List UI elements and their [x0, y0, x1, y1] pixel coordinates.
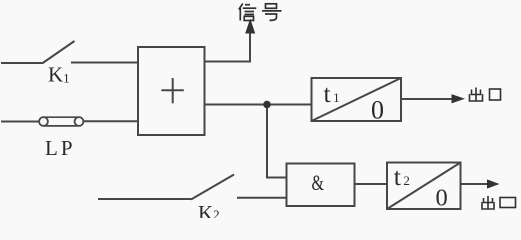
信: [239, 4, 256, 21]
OR gate plus sign: [161, 78, 183, 103]
svg-text:0: 0: [436, 185, 448, 212]
出: [482, 196, 494, 209]
wire AND to T2: [355, 183, 388, 185]
label 出口 (outlet 2) drawn glyphs: [482, 196, 516, 209]
label 信号 (signal) drawn glyphs: [239, 4, 282, 21]
wire OR output to node: [205, 104, 312, 106]
wire T1 output arrow line: [401, 98, 456, 100]
wire K2 to AND gate: [237, 197, 287, 199]
wire node down to AND gate: [267, 105, 287, 178]
svg-text:0: 0: [371, 95, 384, 124]
arrowhead outlet 1 (right): [452, 94, 466, 103]
timer T2 diagonal: [387, 163, 461, 210]
wire K1 to OR gate: [71, 62, 138, 64]
wire K1 left lead: [1, 62, 42, 64]
OR gate U1 "+" box: [138, 47, 205, 135]
口: [500, 198, 516, 208]
switch K1 blade: [42, 41, 75, 64]
wire LP left lead: [1, 121, 40, 123]
svg-text:&: &: [312, 170, 325, 195]
wire LP to OR gate: [83, 120, 138, 122]
wire K2 left lead: [98, 198, 191, 200]
号: [262, 4, 282, 21]
口: [490, 89, 501, 100]
node junction dot: [263, 101, 271, 109]
svg-text:LP: LP: [45, 136, 76, 160]
wire signal output: [205, 31, 251, 62]
arrowhead signal (up): [245, 19, 255, 34]
link LP symbol: [39, 117, 83, 126]
switch K2 blade: [191, 175, 234, 200]
timer T2 box: [387, 163, 461, 210]
wire T2 output arrow line: [461, 183, 493, 185]
出: [470, 88, 483, 102]
AND gate box: [287, 164, 355, 207]
arrowhead outlet 2 (right): [487, 179, 500, 188]
timer T1 box: [312, 78, 402, 121]
label 出口 (outlet 1) drawn glyphs: [470, 88, 501, 102]
timer T1 diagonal: [312, 78, 402, 121]
